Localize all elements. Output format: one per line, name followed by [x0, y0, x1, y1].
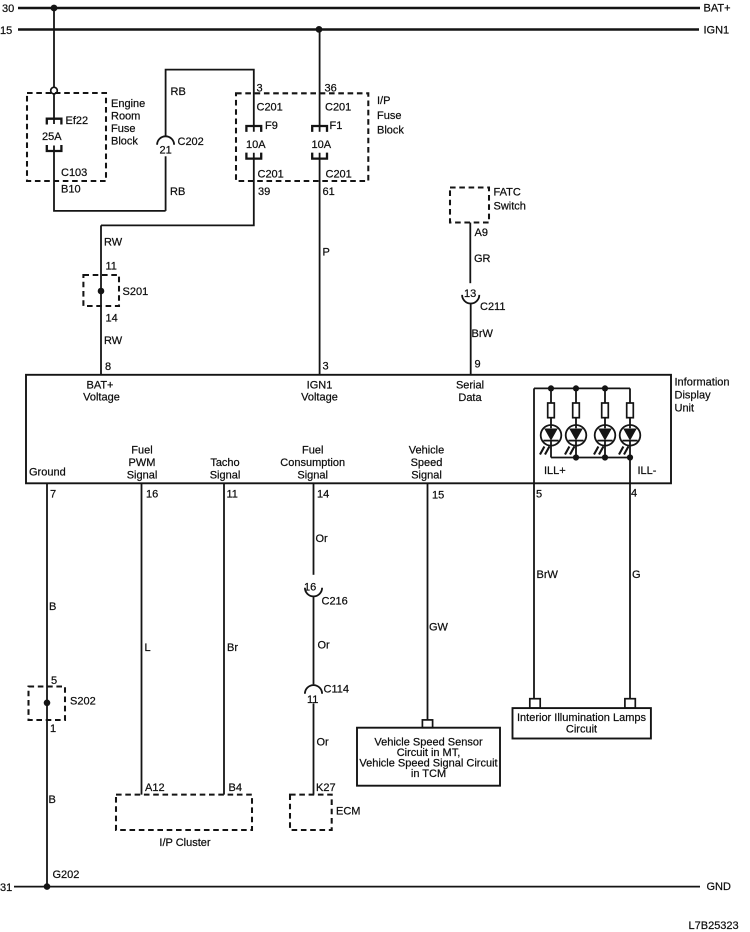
wire F9 down then left to RW riser [101, 153, 254, 226]
svg-text:S202: S202 [70, 696, 96, 708]
svg-text:Signal: Signal [210, 470, 241, 482]
svg-text:25A: 25A [42, 131, 62, 143]
svg-text:BAT+: BAT+ [86, 380, 113, 392]
svg-text:C211: C211 [480, 301, 505, 313]
bus line 31 (GND) [14, 886, 700, 888]
svg-text:61: 61 [323, 186, 335, 198]
svg-text:9: 9 [475, 359, 481, 371]
svg-text:ILL+: ILL+ [544, 465, 566, 477]
svg-text:10A: 10A [312, 139, 332, 151]
svg-text:15: 15 [432, 490, 444, 502]
fuse F1 [312, 126, 327, 159]
pin square left on interior illumination box [530, 699, 540, 708]
label Vehicle Speed Signal [409, 445, 444, 482]
svg-text:C201: C201 [326, 169, 352, 181]
svg-text:C103: C103 [61, 167, 87, 179]
svg-text:1: 1 [50, 723, 56, 735]
svg-text:ILL-: ILL- [638, 465, 657, 477]
pin square on vehicle speed sensor box [422, 720, 432, 728]
label IGN1 Voltage [301, 380, 338, 404]
svg-text:RW: RW [104, 335, 123, 347]
svg-text:14: 14 [106, 313, 118, 325]
wire P from F1 down to IDU pin 3 [319, 153, 321, 375]
wire Or from pin 14 to C216 [313, 483, 315, 575]
label Fuel PWM Signal [127, 445, 158, 482]
wire Br from pin 11 to I/P Cluster B4 [223, 483, 225, 794]
svg-text:Consumption: Consumption [280, 457, 345, 469]
svg-text:Signal: Signal [127, 470, 158, 482]
svg-text:Voltage: Voltage [83, 392, 120, 404]
svg-text:Room: Room [111, 111, 140, 123]
label FATC Switch [494, 187, 526, 213]
Engine Room Fuse Block dashed box [27, 93, 106, 181]
wire ground B from pin 7 to G202 [46, 483, 48, 886]
svg-text:P: P [323, 247, 330, 259]
svg-text:Serial: Serial [456, 380, 484, 392]
splice S202 dashed box [29, 687, 66, 721]
label Information Display Unit [675, 377, 730, 415]
splice S201 dashed box [83, 275, 119, 306]
svg-text:Circuit: Circuit [566, 724, 597, 736]
connector C202 half circle [157, 136, 174, 144]
svg-text:B: B [49, 794, 56, 806]
connector C216 half circle [305, 588, 322, 597]
label I/P Fuse Block [377, 95, 404, 137]
LED D1 emission marks [540, 447, 549, 455]
svg-text:39: 39 [258, 186, 270, 198]
svg-text:K27: K27 [316, 782, 336, 794]
LED D2 [566, 425, 587, 446]
svg-text:Fuel: Fuel [131, 445, 152, 457]
svg-text:Signal: Signal [297, 470, 328, 482]
wire RB lower segment [165, 156, 167, 211]
svg-text:L7B25323: L7B25323 [689, 920, 739, 932]
wire GW from pin 15 to vehicle speed sensor box [427, 483, 429, 720]
svg-text:Speed: Speed [411, 457, 443, 469]
fuse F9 [246, 126, 261, 159]
I/P Fuse Block dashed box [236, 93, 368, 181]
label Interior Illumination Lamps Circuit [517, 712, 647, 736]
svg-text:Interior Illumination Lamps: Interior Illumination Lamps [517, 712, 647, 724]
LED branch 3: wire [604, 388, 606, 457]
svg-text:B10: B10 [61, 184, 81, 196]
LED D3 [595, 425, 616, 446]
connector C211 half circle [462, 295, 479, 304]
wire connector to fuse Ef22 [53, 94, 55, 124]
wire bus 30 down to fuse block connector [53, 8, 55, 87]
junction dots on bottom rail [573, 454, 633, 460]
svg-text:36: 36 [325, 83, 337, 95]
svg-text:21: 21 [160, 145, 172, 157]
svg-text:8: 8 [105, 361, 111, 373]
LED branch 2: wire [575, 388, 577, 457]
svg-text:3: 3 [323, 361, 329, 373]
fuse Ef22 [47, 119, 62, 151]
svg-text:Voltage: Voltage [301, 392, 338, 404]
svg-text:GND: GND [707, 881, 732, 893]
svg-text:A9: A9 [475, 227, 488, 239]
svg-text:C201: C201 [257, 102, 283, 114]
wire LED top rail [534, 387, 630, 389]
Interior Illumination Lamps Circuit box [513, 708, 651, 738]
svg-text:Engine: Engine [111, 98, 145, 110]
connector C114 half circle [305, 685, 322, 694]
pin square right on interior illumination box [625, 699, 635, 708]
svg-text:11: 11 [227, 489, 238, 501]
svg-text:31: 31 [0, 882, 12, 894]
resistor R3 [602, 403, 609, 418]
svg-text:C216: C216 [322, 596, 348, 608]
junction dot G202 on bus 31 [44, 883, 51, 890]
svg-text:Fuse: Fuse [377, 110, 401, 122]
svg-text:Display: Display [675, 390, 712, 402]
svg-text:C202: C202 [178, 136, 204, 148]
svg-text:B: B [49, 601, 56, 613]
Information Display Unit box U1 [26, 375, 671, 484]
svg-text:Or: Or [318, 640, 331, 652]
wire RB upper segment to I/P fuse block pin 3 [166, 70, 254, 137]
svg-text:Data: Data [458, 392, 482, 404]
label Vehicle Speed Sensor Circuit text [359, 737, 497, 781]
label Fuel Consumption Signal [280, 445, 345, 482]
svg-text:10A: 10A [246, 139, 266, 151]
LED D1 [541, 425, 562, 446]
wire bus 15 down to fuse F1 [319, 29, 321, 131]
wire Or from C114 to ECM K27 [313, 703, 315, 794]
svg-text:C201: C201 [325, 102, 351, 114]
svg-text:Signal: Signal [411, 470, 442, 482]
svg-text:RB: RB [170, 186, 185, 198]
svg-text:14: 14 [317, 489, 329, 501]
svg-text:15: 15 [0, 25, 12, 37]
label BAT+ Voltage [83, 380, 120, 404]
svg-text:Vehicle: Vehicle [409, 445, 444, 457]
wire FATC pin A9 down [469, 223, 471, 284]
svg-text:IGN1: IGN1 [307, 380, 333, 392]
resistor R2 [573, 403, 580, 418]
svg-text:F9: F9 [265, 120, 278, 132]
svg-text:5: 5 [536, 489, 542, 501]
svg-text:Tacho: Tacho [210, 457, 239, 469]
wire ILL+ feed (top rail left leg down to pin 5) [533, 388, 535, 698]
svg-text:C201: C201 [258, 169, 284, 181]
wire ILL- return down to pin 4 [629, 458, 631, 699]
svg-text:BAT+: BAT+ [704, 3, 731, 15]
label Serial Data [456, 380, 484, 405]
svg-text:F1: F1 [330, 120, 343, 132]
bus line 30 (BAT+) [18, 7, 700, 10]
svg-text:BrW: BrW [472, 328, 494, 340]
resistor R1 [548, 403, 555, 418]
svg-text:Block: Block [377, 125, 404, 137]
svg-text:FATC: FATC [494, 187, 521, 199]
LED D4 emission marks [619, 447, 628, 455]
wire RW riser down to IDU pin 8 [100, 225, 102, 374]
svg-text:B4: B4 [229, 782, 242, 794]
svg-text:I/P: I/P [377, 95, 390, 107]
LED branch 1: wire [550, 388, 552, 457]
junction dots on top rail [548, 385, 608, 391]
svg-text:16: 16 [146, 489, 158, 501]
I/P Cluster dashed box [116, 795, 252, 830]
wire from Ef22 down and right to RB riser [54, 146, 166, 211]
svg-text:RB: RB [171, 86, 186, 98]
svg-text:Fuse: Fuse [111, 123, 135, 135]
svg-text:Ef22: Ef22 [66, 115, 89, 127]
svg-text:7: 7 [50, 489, 56, 501]
junction dot on bus 15 [316, 26, 323, 33]
wire L from pin 16 to I/P Cluster A12 [141, 483, 143, 794]
svg-text:11: 11 [106, 261, 117, 273]
connector open circle at Engine Room Fuse Block entry [51, 87, 58, 94]
junction dot on bus 30 [51, 5, 58, 12]
svg-text:Or: Or [316, 533, 329, 545]
LED D3 emission marks [594, 447, 603, 455]
svg-text:G: G [632, 569, 641, 581]
svg-text:Information: Information [675, 377, 730, 389]
svg-text:Br: Br [227, 642, 238, 654]
svg-text:Block: Block [111, 136, 138, 148]
svg-text:Or: Or [317, 737, 330, 749]
wire Or from C216 to C114 [313, 596, 315, 684]
FATC Switch dashed box [450, 188, 489, 223]
svg-text:Unit: Unit [675, 403, 695, 415]
svg-text:GW: GW [429, 622, 449, 634]
svg-text:5: 5 [51, 675, 57, 687]
svg-text:A12: A12 [145, 782, 165, 794]
svg-text:4: 4 [631, 488, 637, 500]
svg-text:S201: S201 [123, 286, 149, 298]
svg-text:30: 30 [2, 3, 14, 15]
wire LED bottom rail [551, 457, 630, 459]
resistor R4 [627, 403, 634, 418]
svg-text:GR: GR [474, 253, 491, 265]
LED branch 4: wire [629, 388, 631, 457]
LED D2 emission marks [565, 447, 574, 455]
svg-text:C114: C114 [324, 684, 349, 696]
svg-text:IGN1: IGN1 [704, 25, 730, 37]
ECM dashed box [290, 795, 332, 830]
svg-text:Ground: Ground [29, 467, 66, 479]
svg-text:ECM: ECM [336, 806, 360, 818]
svg-text:13: 13 [464, 288, 476, 300]
svg-text:L: L [145, 642, 151, 654]
label Tacho Signal [210, 457, 241, 482]
svg-text:I/P Cluster: I/P Cluster [159, 837, 210, 849]
junction dot in S202 [44, 700, 51, 707]
LED D4 [620, 425, 641, 446]
svg-text:Fuel: Fuel [302, 445, 323, 457]
bus line 15 (IGN1) [18, 28, 699, 31]
svg-text:PWM: PWM [129, 457, 156, 469]
svg-text:BrW: BrW [537, 569, 559, 581]
svg-text:in TCM: in TCM [411, 768, 446, 780]
junction dot in S201 [98, 288, 105, 295]
svg-text:G202: G202 [53, 869, 80, 881]
label Engine Room Fuse Block [111, 98, 145, 148]
Vehicle Speed Sensor box [357, 728, 500, 786]
svg-text:Switch: Switch [494, 201, 526, 213]
wire C211 down to IDU pin 9 [470, 304, 472, 375]
svg-text:RW: RW [104, 237, 123, 249]
